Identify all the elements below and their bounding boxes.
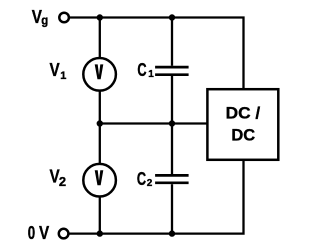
terminal Vg (open circle)	[59, 13, 69, 23]
voltmeter V1	[83, 58, 116, 91]
wire V1 bottom lead (V1 to middle rail)	[99, 91, 101, 124]
capacitor C2	[155, 175, 189, 182]
svg-text:V: V	[39, 223, 49, 243]
terminal 0V (open circle)	[59, 229, 69, 239]
svg-text:V: V	[50, 60, 60, 80]
wire V2 top lead (middle rail to V2)	[99, 124, 101, 165]
wire bottom rail from 0V terminal to right corner, up to DC/DC bottom	[69, 160, 243, 234]
label Vg	[32, 7, 49, 28]
node junction middle rail x=172	[169, 120, 175, 126]
svg-text:0: 0	[28, 223, 35, 243]
svg-text:DC /: DC /	[226, 104, 261, 122]
svg-text:1: 1	[60, 70, 66, 82]
node junction top rail x=100	[97, 14, 103, 20]
label C2	[137, 169, 153, 189]
svg-text:DC: DC	[231, 127, 255, 145]
label 0V	[28, 223, 49, 243]
wire C1 bottom lead through middle rail to C2 top	[171, 76, 173, 174]
label V2	[50, 166, 67, 189]
node junction bottom rail x=172	[169, 230, 175, 236]
wire middle rail from V1/V2 column to DC/DC left edge	[100, 122, 209, 124]
svg-text:2: 2	[59, 174, 66, 189]
wire V1 top lead (x=100, top rail to V1)	[99, 18, 101, 59]
svg-text:1: 1	[148, 69, 154, 80]
converter block U1 DC/DC	[207, 89, 278, 160]
wire V2 bottom lead (V2 to bottom rail)	[99, 197, 101, 234]
label V1	[50, 60, 67, 82]
wire C2 bottom lead (C2 to bottom rail)	[171, 184, 173, 233]
wire C1 top lead (top rail to C1)	[171, 18, 173, 66]
wire top rail from Vg terminal to right corner, down to DC/DC top	[70, 18, 244, 90]
node junction bottom rail x=100	[97, 230, 103, 236]
svg-text:2: 2	[147, 178, 153, 189]
svg-text:g: g	[41, 13, 48, 28]
svg-text:C: C	[137, 169, 146, 189]
node junction middle rail x=100	[97, 120, 103, 126]
voltmeter V2	[83, 164, 116, 197]
svg-text:C: C	[137, 60, 146, 80]
label C1	[137, 60, 154, 80]
node junction top rail x=172	[169, 14, 175, 20]
capacitor C1	[155, 67, 189, 75]
